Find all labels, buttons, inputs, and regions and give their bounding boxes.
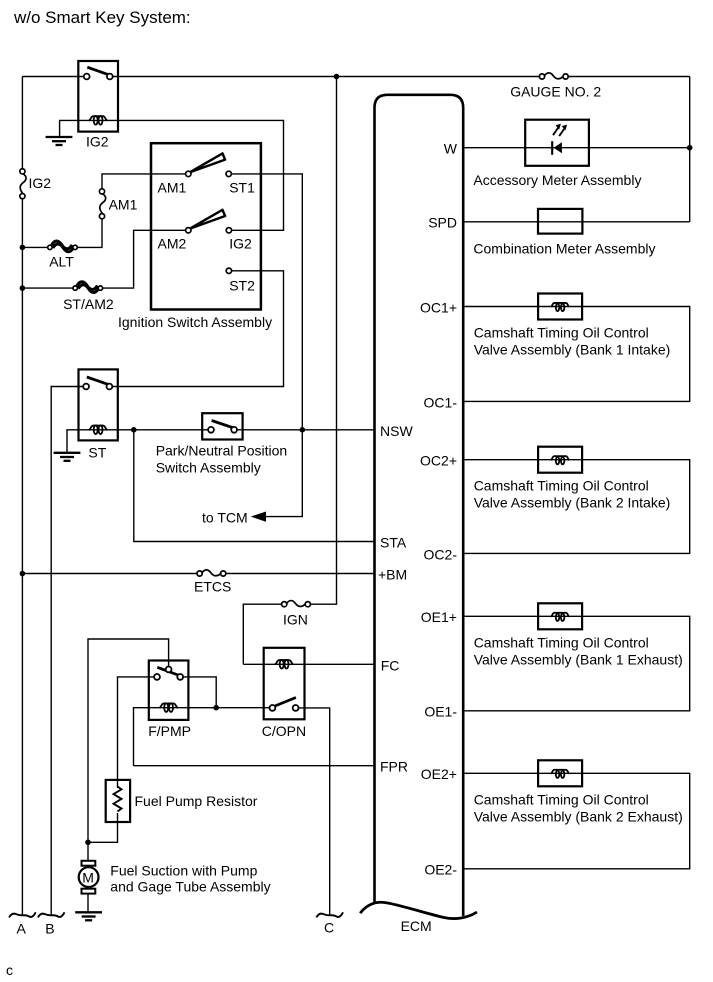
ignition switch terminal AM1 — [186, 171, 191, 176]
svg-text:Valve Assembly (Bank 1 Intake): Valve Assembly (Bank 1 Intake) — [474, 342, 671, 358]
wire C/OPN switch to connector C — [296, 708, 330, 915]
svg-text:B: B — [45, 921, 54, 937]
ignition switch assembly box — [151, 143, 261, 309]
fuse GAUGE NO. 2 — [539, 73, 568, 79]
wire ST2 to ST relay switch — [109, 271, 283, 387]
junction on W net at right rail — [687, 145, 693, 151]
svg-text:C/OPN: C/OPN — [262, 723, 306, 739]
wire AM1 fuse to ALT link — [75, 216, 102, 247]
wire ST/AM2 link to AM2 terminal — [100, 230, 188, 288]
wire right drop to SPD — [689, 77, 691, 222]
wire left rail lower to connector A — [21, 196, 23, 915]
wire F/PMP common to fuel pump — [88, 639, 169, 842]
wire NSW net to ECM — [234, 429, 374, 431]
wire top rail middle — [110, 76, 542, 78]
svg-text:STA: STA — [380, 535, 407, 551]
junction F/PMP coil row — [213, 705, 219, 711]
svg-text:Combination Meter Assembly: Combination Meter Assembly — [473, 241, 655, 257]
wire FC net through C/OPN coil — [243, 663, 374, 665]
fuel pump motor M — [79, 861, 99, 894]
wire NSW net left of park/neutral switch — [79, 429, 212, 431]
svg-text:AM1: AM1 — [158, 180, 187, 196]
svg-text:M: M — [82, 869, 94, 885]
ignition switch terminal AM2 — [186, 228, 191, 233]
fuel pump resistor zigzag — [114, 787, 122, 812]
camshaft solenoid OC2 — [538, 447, 582, 473]
park/neutral position switch box — [202, 413, 242, 439]
svg-text:FPR: FPR — [380, 759, 408, 775]
wire resistor to fuel pump junction — [88, 813, 118, 842]
wire ST1 to NSW junction and to TCM arrow — [229, 174, 303, 517]
wire SPD net — [463, 221, 690, 223]
svg-text:ECM: ECM — [401, 918, 432, 934]
wire IG2 relay coil to ground — [60, 120, 79, 136]
camshaft solenoid OE1 — [538, 603, 582, 629]
junction left rail / ST-AM2 — [20, 285, 26, 291]
svg-text:Camshaft Timing Oil Control: Camshaft Timing Oil Control — [474, 791, 649, 807]
ignition switch terminal IG2 — [226, 228, 231, 233]
junction NSW / TCM — [300, 427, 306, 433]
svg-text:OE1-: OE1- — [424, 704, 457, 720]
ground at IG2 relay — [46, 137, 73, 145]
svg-text:ST1: ST1 — [229, 180, 255, 196]
svg-text:AM2: AM2 — [158, 236, 187, 252]
svg-text:Camshaft Timing Oil Control: Camshaft Timing Oil Control — [474, 325, 649, 341]
svg-text:OC2+: OC2+ — [420, 453, 457, 469]
svg-text:and Gage Tube Assembly: and Gage Tube Assembly — [110, 879, 270, 895]
wire W net — [463, 147, 690, 149]
ignition switch key wedge AM1 — [190, 153, 225, 172]
camshaft solenoid OE2 — [538, 760, 582, 786]
wire F/PMP right contact to coil row — [180, 677, 216, 708]
wire ST relay coil to ground — [67, 430, 79, 452]
park/neutral switch contacts — [208, 427, 214, 433]
fusible link ALT — [48, 241, 78, 252]
wire top rail left — [22, 76, 86, 78]
wire OE2 loop — [463, 773, 690, 869]
to TCM arrow — [251, 512, 266, 522]
camshaft solenoid OC1 — [538, 294, 582, 320]
svg-text:ST2: ST2 — [229, 278, 255, 294]
svg-text:OE2+: OE2+ — [421, 766, 457, 782]
wire OC1 loop — [463, 307, 690, 402]
wire F/PMP left contact to resistor — [118, 677, 158, 788]
wire ALT link to left rail — [22, 246, 50, 248]
svg-text:Fuel Suction with Pump: Fuel Suction with Pump — [110, 862, 257, 878]
park/neutral switch blade — [212, 421, 233, 428]
svg-text:OC1+: OC1+ — [420, 299, 457, 315]
fuse ETCS — [197, 570, 226, 576]
svg-text:GAUGE NO. 2: GAUGE NO. 2 — [510, 84, 601, 100]
svg-text:IG2: IG2 — [86, 134, 109, 150]
fusible link ST/AM2 — [73, 282, 103, 293]
wire OC2 loop — [463, 460, 690, 554]
wire motor to ground — [87, 894, 89, 912]
svg-text:Valve Assembly (Bank 2 Exhaust: Valve Assembly (Bank 2 Exhaust) — [474, 808, 683, 824]
wire STA net — [134, 430, 375, 542]
relay IG2 — [78, 61, 118, 132]
svg-text:Camshaft Timing Oil Control: Camshaft Timing Oil Control — [474, 634, 649, 650]
ignition switch terminal ST1 — [226, 171, 231, 176]
svg-text:Switch Assembly: Switch Assembly — [156, 459, 261, 475]
relay C/OPN — [264, 648, 305, 720]
junction left rail / ALT — [20, 245, 26, 251]
ground at ST relay — [54, 453, 81, 461]
svg-text:OE1+: OE1+ — [421, 609, 457, 625]
svg-text:SPD: SPD — [428, 215, 457, 231]
connector B — [38, 912, 65, 917]
ignition switch key wedge AM2 — [190, 210, 225, 229]
wire fuel pump junction to motor — [87, 842, 89, 861]
ground at fuel pump — [75, 912, 102, 920]
wire left rail upper — [21, 77, 23, 172]
wire OE1 loop — [463, 616, 690, 711]
wire ST/AM2 link to left rail — [22, 287, 75, 289]
svg-text:+BM: +BM — [378, 567, 407, 583]
wire IGN riser from top rail — [307, 77, 336, 605]
wire ST relay switch to connector B — [51, 387, 86, 915]
wire +BM net right of ETCS — [223, 573, 375, 575]
relay F/PMP — [149, 661, 189, 720]
svg-text:to TCM: to TCM — [202, 510, 248, 526]
svg-text:IG2: IG2 — [29, 175, 52, 191]
accessory meter assembly box — [525, 120, 589, 166]
svg-text:F/PMP: F/PMP — [148, 723, 191, 739]
svg-text:ETCS: ETCS — [194, 579, 231, 595]
junction fuel pump feed — [85, 840, 91, 846]
ECM torn bottom wave — [360, 902, 477, 918]
fuse IG2 — [20, 169, 26, 199]
fuse IGN — [282, 601, 311, 607]
svg-text:W: W — [444, 141, 458, 157]
wire IGN fuse to C/OPN coil — [243, 604, 284, 664]
svg-text:C: C — [324, 920, 334, 936]
svg-text:Ignition Switch Assembly: Ignition Switch Assembly — [118, 314, 272, 330]
svg-text:ST/AM2: ST/AM2 — [63, 296, 114, 312]
wire F/PMP coil row to C/OPN switch — [134, 708, 273, 766]
svg-text:Valve Assembly (Bank 2 Intake): Valve Assembly (Bank 2 Intake) — [474, 495, 671, 511]
wire IG2 relay coil to ignition switch IG2 terminal — [78, 120, 283, 230]
relay ST — [79, 369, 118, 440]
connector A — [9, 912, 36, 917]
svg-text:FC: FC — [381, 657, 400, 673]
svg-text:Valve Assembly (Bank 1 Exhaust: Valve Assembly (Bank 1 Exhaust) — [474, 651, 683, 667]
svg-text:OE2-: OE2- — [424, 862, 457, 878]
junction on top rail at IGN riser — [334, 74, 340, 80]
connector C — [316, 912, 343, 917]
fuel pump resistor box — [106, 780, 130, 822]
svg-text:Fuel Pump Resistor: Fuel Pump Resistor — [135, 793, 258, 809]
svg-text:IGN: IGN — [283, 611, 308, 627]
svg-text:OC2-: OC2- — [424, 546, 458, 562]
svg-text:ST: ST — [88, 445, 106, 461]
svg-text:IG2: IG2 — [229, 236, 252, 252]
junction ST coil / STA — [131, 427, 137, 433]
junction left rail / +BM — [20, 571, 26, 577]
svg-text:w/o Smart Key System:: w/o Smart Key System: — [13, 8, 191, 27]
svg-text:ALT: ALT — [49, 254, 74, 270]
svg-text:Park/Neutral Position: Park/Neutral Position — [156, 443, 288, 459]
combination meter assembly box — [538, 209, 582, 234]
svg-text:Accessory Meter Assembly: Accessory Meter Assembly — [473, 172, 641, 188]
svg-text:NSW: NSW — [380, 423, 413, 439]
svg-text:AM1: AM1 — [109, 196, 138, 212]
wire AM1 fuse to AM1 terminal — [102, 174, 188, 191]
wire top rail right — [566, 76, 690, 78]
ECM outline — [375, 95, 464, 916]
svg-text:A: A — [17, 921, 27, 937]
ignition switch terminal ST2 — [226, 268, 231, 273]
svg-text:c: c — [6, 962, 13, 978]
wire +BM net left of ETCS — [22, 573, 200, 575]
wire FPR net — [134, 765, 375, 767]
fuse AM1 — [99, 189, 105, 219]
svg-text:Camshaft Timing Oil Control: Camshaft Timing Oil Control — [474, 478, 649, 494]
svg-text:OC1-: OC1- — [424, 394, 458, 410]
